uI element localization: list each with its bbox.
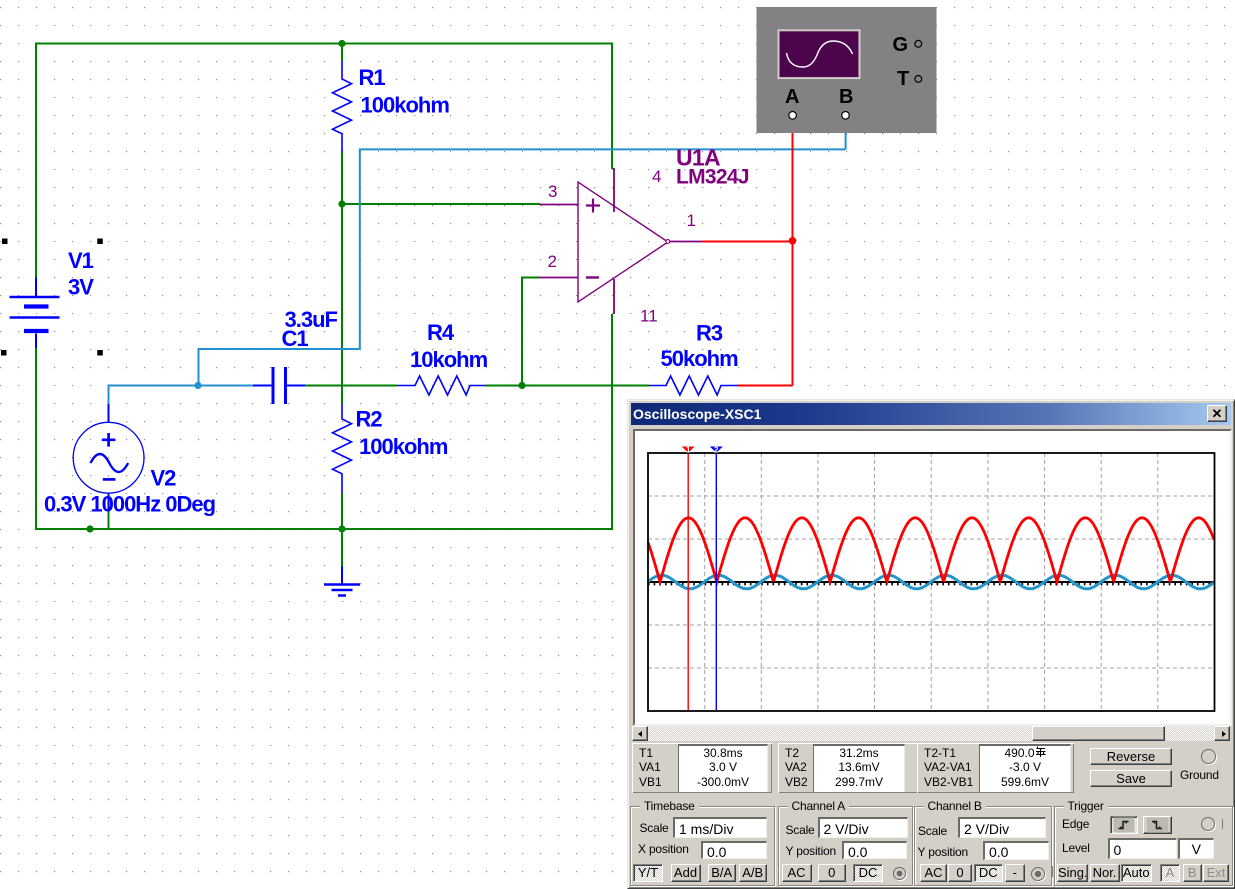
label R1 bbox=[359, 65, 450, 118]
readout panel T2-T1 bbox=[917, 743, 1074, 793]
resistor R4 bbox=[397, 376, 486, 395]
label R2 bbox=[356, 407, 448, 459]
Save button bbox=[1090, 770, 1172, 787]
label V1 bbox=[68, 248, 94, 299]
wire R1 bottom to R2 top bbox=[341, 152, 343, 404]
resistor R2 bbox=[333, 404, 352, 494]
svg-text:C1: C1 bbox=[282, 326, 309, 351]
junction top R1 bbox=[338, 40, 345, 47]
junction red output bbox=[789, 237, 797, 245]
selection handles V1 bbox=[1, 239, 103, 356]
plot SVG bbox=[635, 431, 1227, 723]
white client area bbox=[633, 429, 1232, 726]
junction R2 bottom ground bbox=[338, 525, 345, 532]
svg-text:V1: V1 bbox=[68, 248, 94, 273]
wire R4 right to R3 left bbox=[486, 385, 649, 387]
svg-text:2: 2 bbox=[548, 252, 557, 271]
svg-text:3V: 3V bbox=[68, 274, 94, 299]
svg-text:100kohm: 100kohm bbox=[361, 93, 450, 118]
scrollbar bbox=[632, 726, 1230, 741]
Timebase group bbox=[630, 806, 775, 886]
svg-text:1: 1 bbox=[686, 445, 691, 454]
label R4 bbox=[410, 320, 488, 372]
wire top net V1+ to R1/opamp supply bbox=[35, 43, 613, 278]
svg-text:2: 2 bbox=[714, 445, 719, 454]
wire R4 node to op-amp pin2 bbox=[522, 278, 540, 386]
svg-text:G: G bbox=[893, 34, 909, 56]
Ground terminal bbox=[1201, 749, 1216, 764]
svg-text:11: 11 bbox=[640, 307, 658, 326]
wire R1 top link bbox=[341, 43, 343, 61]
wire cyan net V2 to C1 and scope B bbox=[109, 119, 846, 404]
wire node to op-amp pin3 bbox=[342, 203, 540, 205]
resistor R1 bbox=[333, 61, 352, 152]
label V2 bbox=[44, 465, 215, 516]
svg-text:4: 4 bbox=[652, 167, 661, 186]
junction cyan C1 branch bbox=[194, 382, 201, 389]
Channel A group bbox=[778, 806, 913, 886]
Channel B group bbox=[914, 806, 1052, 886]
op-amp U1A bbox=[540, 168, 702, 314]
svg-text:1: 1 bbox=[687, 211, 696, 230]
svg-text:R3: R3 bbox=[696, 320, 723, 345]
label U1A bbox=[676, 145, 749, 189]
svg-text:A: A bbox=[785, 86, 799, 108]
label R3 bbox=[661, 320, 739, 371]
svg-text:10kohm: 10kohm bbox=[410, 347, 488, 372]
ground bbox=[324, 566, 360, 596]
capacitor C1 bbox=[253, 367, 305, 404]
wire ground bottom net bbox=[35, 314, 613, 566]
source V2 bbox=[73, 404, 144, 512]
svg-text:3: 3 bbox=[548, 182, 557, 201]
Reverse button bbox=[1090, 748, 1172, 765]
title bar bbox=[631, 403, 1231, 425]
wire C1 right to R4 left bbox=[305, 385, 397, 387]
wire left bottom segment V1- bbox=[35, 348, 37, 530]
svg-text:R4: R4 bbox=[427, 320, 455, 345]
junction node R1-R2-pin3 bbox=[338, 200, 345, 207]
junction bottom wire bbox=[86, 525, 93, 532]
readout panel T1 bbox=[632, 743, 772, 793]
svg-text:B: B bbox=[839, 86, 853, 108]
oscilloscope XSC1 icon bbox=[757, 7, 937, 133]
svg-text:100kohm: 100kohm bbox=[359, 434, 448, 459]
wire red output net to scope A bbox=[702, 119, 793, 386]
svg-text:T: T bbox=[897, 68, 909, 90]
svg-text:R2: R2 bbox=[356, 407, 383, 432]
Trigger group bbox=[1054, 806, 1233, 886]
readout panel T2 bbox=[778, 743, 920, 793]
svg-text:LM324J: LM324J bbox=[676, 166, 749, 189]
svg-text:R1: R1 bbox=[359, 65, 386, 90]
svg-text:50kohm: 50kohm bbox=[661, 346, 739, 371]
battery V1 bbox=[10, 278, 60, 349]
svg-text:V2: V2 bbox=[151, 465, 177, 490]
junction R4-pin2 bbox=[518, 382, 525, 389]
resistor R3 bbox=[649, 376, 737, 395]
pin numbers U1A bbox=[548, 167, 696, 326]
svg-text:0.3V 1000Hz 0Deg: 0.3V 1000Hz 0Deg bbox=[44, 492, 215, 517]
label C1 bbox=[282, 307, 338, 351]
